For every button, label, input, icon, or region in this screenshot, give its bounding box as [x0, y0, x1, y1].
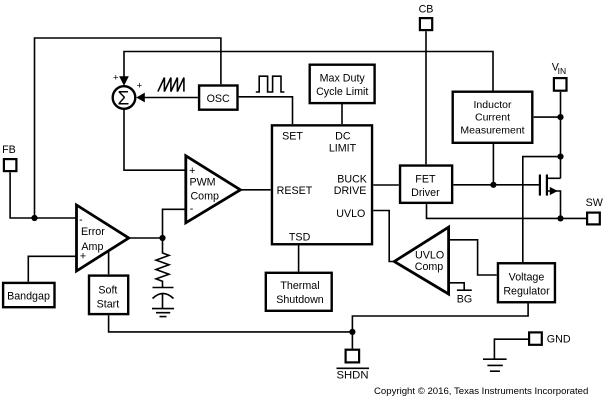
svg-text:Copyright © 2016, Texas Instru: Copyright © 2016, Texas Instruments Inco… — [374, 386, 588, 397]
svg-text:SHDN: SHDN — [336, 369, 368, 381]
svg-text:+: + — [113, 72, 119, 83]
svg-text:CB: CB — [419, 4, 434, 16]
svg-text:SET: SET — [282, 130, 303, 142]
svg-text:UVLO: UVLO — [415, 250, 444, 262]
svg-text:Measurement: Measurement — [460, 125, 524, 137]
svg-text:+: + — [189, 165, 195, 177]
svg-text:-: - — [190, 203, 194, 215]
svg-text:Start: Start — [97, 299, 120, 311]
svg-text:Bandgap: Bandgap — [7, 290, 50, 302]
svg-text:FET: FET — [415, 173, 436, 185]
svg-text:Comp: Comp — [190, 190, 219, 202]
svg-text:Σ: Σ — [118, 88, 130, 109]
svg-text:Inductor: Inductor — [474, 99, 512, 111]
svg-text:SW: SW — [586, 197, 604, 209]
svg-text:IN: IN — [558, 66, 567, 76]
svg-text:Comp: Comp — [415, 261, 444, 273]
svg-text:FB: FB — [2, 144, 16, 156]
svg-text:GND: GND — [547, 333, 571, 345]
svg-text:Max Duty: Max Duty — [320, 73, 366, 85]
svg-text:RESET: RESET — [277, 185, 313, 197]
svg-text:LIMIT: LIMIT — [329, 143, 357, 155]
svg-text:Current: Current — [475, 112, 510, 124]
svg-text:+: + — [137, 80, 143, 91]
svg-text:Voltage: Voltage — [509, 272, 545, 284]
svg-text:DRIVE: DRIVE — [334, 185, 367, 197]
svg-text:Error: Error — [81, 226, 105, 238]
svg-text:UVLO: UVLO — [336, 208, 365, 220]
svg-text:DC: DC — [335, 130, 351, 142]
svg-text:Regulator: Regulator — [503, 285, 550, 297]
svg-text:OSC: OSC — [207, 93, 230, 105]
svg-text:Thermal: Thermal — [280, 280, 319, 292]
svg-text:-: - — [79, 214, 83, 226]
svg-text:Amp: Amp — [81, 241, 103, 253]
svg-text:PWM: PWM — [189, 177, 215, 189]
svg-text:Cycle Limit: Cycle Limit — [316, 86, 368, 98]
svg-text:TSD: TSD — [289, 231, 311, 243]
svg-text:BG: BG — [457, 294, 472, 306]
svg-text:Shutdown: Shutdown — [276, 294, 324, 306]
svg-text:Soft: Soft — [98, 285, 117, 297]
svg-text:Driver: Driver — [411, 187, 440, 199]
svg-text:BUCK: BUCK — [337, 173, 368, 185]
